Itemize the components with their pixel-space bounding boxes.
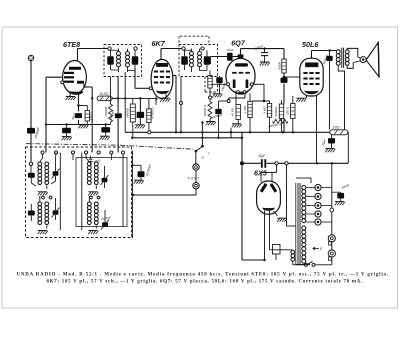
label 6K7	[152, 39, 166, 48]
label 6Q7	[231, 39, 246, 48]
ground 6K7	[160, 98, 170, 102]
label 50uF	[71, 112, 77, 120]
label 10000pF	[211, 113, 223, 120]
svg-text:4 MΩ: 4 MΩ	[262, 106, 266, 114]
label 25uF out	[320, 138, 327, 147]
capacitor 1000pF det	[216, 76, 223, 94]
svg-text:150 Ω: 150 Ω	[286, 106, 290, 115]
svg-text:20000pF: 20000pF	[99, 215, 111, 221]
power transformer heater coil	[291, 250, 295, 265]
wire grid to tube	[283, 76, 300, 78]
resistor 5K field	[330, 130, 348, 135]
tube 6Q7 plate	[235, 63, 248, 66]
tube 6Q7 diode plates	[233, 80, 249, 89]
svg-text:40 KΩ: 40 KΩ	[231, 107, 235, 116]
wire bus C (B+)	[125, 131, 329, 134]
terminal FONT 2	[193, 183, 199, 189]
tube 6TE8 cathode	[61, 81, 84, 95]
svg-text:500000: 500000	[274, 106, 278, 116]
capacitor 10000pF af	[215, 101, 222, 138]
svg-text:5 KΩ: 5 KΩ	[333, 125, 341, 129]
power transformer core	[296, 183, 300, 265]
svg-text:50000: 50000	[277, 62, 281, 70]
switch power	[293, 262, 315, 267]
IF1 secondary cap	[132, 50, 139, 68]
svg-text:500000: 500000	[126, 108, 130, 118]
tube 6Q7 cathode	[234, 91, 248, 95]
tube 6X5 envelope	[257, 181, 281, 214]
ground 40000	[335, 202, 345, 206]
capacitor band2 padding	[28, 204, 35, 221]
wire 6TE8 grid to tuner (horiz)	[46, 76, 63, 78]
caption line 1	[17, 273, 389, 278]
power transformer taps	[306, 188, 315, 223]
label 6TE8	[63, 40, 80, 49]
capacitor 1000pF antenna	[27, 128, 35, 134]
trimmer ant	[51, 153, 60, 185]
wire IF1 sec down	[124, 72, 126, 132]
wire group2 links	[60, 153, 123, 231]
IF2 primary coil	[190, 49, 194, 73]
wire heater return y260	[242, 259, 266, 261]
tube 6K7 grid rows	[154, 71, 170, 84]
socket 2	[315, 193, 321, 199]
output transformer secondary	[345, 50, 349, 66]
label FONT	[188, 176, 201, 180]
switch fuse box	[273, 245, 281, 261]
label 50000 grid	[277, 62, 281, 70]
label 25uF	[226, 48, 234, 52]
junction 6TE8 cathode node	[77, 104, 79, 106]
wire right line	[330, 163, 334, 234]
wire osc left	[84, 84, 93, 152]
wire switch to jack	[315, 257, 332, 265]
output transformer core	[342, 48, 344, 68]
svg-text:15 KΩ: 15 KΩ	[99, 92, 109, 96]
capacitor AVC 2	[101, 125, 110, 136]
svg-text:10000pF: 10000pF	[211, 113, 223, 120]
label 1000pF det	[220, 82, 228, 93]
wire 6TE8 grid vertical	[45, 77, 47, 152]
svg-text:25μF: 25μF	[226, 48, 234, 52]
svg-text:FONT: FONT	[188, 176, 201, 180]
antenna terminal	[28, 55, 33, 60]
junction circle	[209, 96, 212, 99]
capacitor 4500pF tone	[261, 49, 268, 62]
resistor 500000 pot	[273, 119, 289, 123]
tube 6K7 plate	[157, 63, 168, 66]
svg-text:47000 Ω: 47000 Ω	[151, 107, 155, 119]
wire group verticals	[0, 0, 1, 1]
wire cathode RC	[79, 106, 88, 125]
tube 50L6 grid rows	[303, 72, 319, 85]
speaker cone	[366, 42, 379, 76]
IF2 shield can (dashed)	[179, 45, 218, 77]
ground 50000	[206, 122, 216, 126]
resistor IF2 damp	[208, 71, 212, 97]
resistor 15K osc	[97, 96, 112, 101]
speaker voice coil	[353, 57, 366, 63]
wire bus interlink	[230, 132, 232, 138]
terminal tuner 6	[110, 151, 113, 154]
capacitor 25uF grid	[211, 53, 239, 64]
dash-dot gang link	[26, 144, 193, 150]
svg-text:32μF: 32μF	[258, 154, 266, 158]
resistor 50000 diode load	[208, 99, 212, 121]
tube 50L6 stems	[307, 95, 317, 163]
label switch	[202, 152, 210, 160]
wire res c	[292, 96, 294, 132]
label 40K	[231, 107, 235, 116]
coil band2 osc A	[87, 196, 91, 225]
terminal IF2 left	[182, 47, 185, 50]
wire 6K7 plate up	[161, 49, 182, 61]
capacitor 5000pF plate	[326, 51, 333, 130]
ground band2	[38, 231, 48, 235]
tube 50L6 plate	[306, 63, 319, 67]
wire avc res	[110, 77, 112, 125]
label 4700	[94, 158, 101, 163]
terminal antenna in	[29, 162, 32, 165]
label 500000 pot	[268, 122, 282, 129]
terminal tuner 3	[71, 151, 74, 154]
IF2 can right extension	[205, 77, 218, 93]
resistor 47000	[147, 98, 151, 131]
wire B- vertical x242	[241, 132, 243, 260]
capacitor 6K7 cathode bypass	[137, 98, 145, 125]
wire antenna lead down	[30, 61, 32, 162]
wire font return	[132, 189, 196, 196]
socket 1	[315, 184, 321, 190]
wire field to bus D	[347, 132, 350, 163]
label 40000	[341, 183, 350, 190]
wire res b	[281, 100, 283, 132]
capacitor 40000 line	[332, 192, 344, 201]
wire coupling right	[241, 47, 285, 49]
coil osc B	[94, 154, 98, 189]
wire 6Q7 diode out	[250, 83, 265, 101]
label 20000pF	[99, 215, 111, 221]
resistor 250ohm cathode	[85, 111, 89, 122]
trimmer band2 osc	[101, 210, 109, 230]
ground 40K	[232, 124, 242, 128]
ground det cap	[212, 94, 222, 98]
wire x132 vertical	[131, 151, 133, 239]
tube 6Q7 grid row	[232, 72, 250, 74]
svg-text:50L6: 50L6	[302, 40, 319, 49]
coil osc A	[86, 154, 91, 185]
ground 20000pF	[134, 180, 144, 184]
IF2 secondary coil	[198, 49, 202, 71]
wire 6K7 grid	[135, 68, 149, 88]
coil band2 A	[38, 196, 42, 225]
capacitor 20000pF font	[132, 165, 144, 180]
label 1000pF	[34, 125, 41, 139]
IF1 primary coil	[117, 49, 121, 73]
switch wave contacts	[195, 145, 204, 153]
wire 6K7 cath link	[124, 97, 157, 100]
ground coil ant	[38, 192, 48, 196]
tube 6TE8 plate bars	[64, 67, 84, 84]
svg-text:50μF: 50μF	[71, 112, 77, 120]
socket 3	[315, 202, 321, 208]
wire transformer return	[338, 65, 344, 129]
wire jacks	[331, 242, 333, 250]
svg-text:C: C	[208, 152, 210, 156]
coil band2 osc B	[94, 202, 98, 229]
tube 6Q7 envelope	[226, 58, 255, 93]
wire 6K7 screen	[173, 76, 176, 132]
capacitor 25uF out	[328, 135, 335, 149]
ground 6X5	[277, 218, 287, 222]
jack 1	[328, 235, 335, 245]
svg-text:20.000pF: 20.000pF	[145, 163, 152, 177]
label 50L6	[302, 40, 319, 49]
tube 6Q7 stems	[229, 93, 245, 105]
label 1M	[243, 105, 247, 113]
label 100000	[104, 107, 108, 117]
label 4M	[262, 106, 266, 114]
tube 50L6 cathode	[305, 91, 319, 95]
svg-text:4700: 4700	[94, 158, 101, 163]
wire 6X5 cath gnd	[274, 211, 278, 216]
power transformer winding upper	[302, 186, 306, 223]
capacitor 50uF cathode	[75, 113, 82, 118]
terminal tuner 2	[54, 151, 57, 154]
label 5000pF	[322, 54, 329, 65]
wire sockets to line	[321, 188, 332, 223]
terminal tuner 5	[97, 151, 100, 154]
svg-text:100000: 100000	[104, 107, 108, 117]
svg-text:6TE8: 6TE8	[63, 40, 80, 49]
ground band2 osc	[88, 231, 98, 235]
capacitor 4700 top	[89, 156, 93, 166]
svg-text:E: E	[320, 247, 323, 251]
wire font top	[195, 151, 197, 164]
ground AVC 2	[100, 136, 110, 140]
svg-text:UNDA RADIO - Mod. R 52/1 - Med: UNDA RADIO - Mod. R 52/1 - Medie e corte…	[17, 273, 389, 278]
caption line 2	[47, 280, 364, 285]
tuner dashed box	[26, 147, 132, 238]
output transformer primary	[336, 50, 340, 66]
terminal FONT 1	[193, 164, 199, 170]
tube 6X5 cathode	[262, 208, 275, 211]
coil band2 B	[45, 202, 49, 229]
svg-text:6K7: 6K7	[152, 39, 166, 48]
ground 6TE8 cathode	[66, 97, 76, 101]
svg-text:6K7: 105 V pl., 57 V sch., —1: 6K7: 105 V pl., 57 V sch., —1 V griglia.…	[47, 280, 364, 285]
wire IF2 primary feed	[180, 77, 183, 134]
ground 6K7 bypass	[135, 125, 145, 129]
wire plate feed	[285, 162, 296, 226]
ground 50L6 cathode	[296, 98, 306, 102]
wire 6Q7 diode left	[212, 83, 231, 86]
tuner inner solid box	[76, 158, 127, 227]
resistor 500000 b	[274, 104, 284, 119]
label 15K	[99, 92, 109, 96]
wire AVC line A	[45, 123, 111, 125]
wire osc right	[112, 77, 125, 153]
svg-text:1 MΩ: 1 MΩ	[243, 105, 247, 113]
socket 4	[315, 211, 321, 217]
svg-text:500000 Ω: 500000 Ω	[268, 122, 282, 129]
IF1 shield can (dashed)	[104, 45, 142, 77]
label 5K	[333, 125, 341, 129]
terminal IF1 right	[134, 47, 137, 50]
resistor 150 c	[286, 104, 295, 119]
tube 6Q7 top cap	[238, 54, 244, 58]
capacitor ant padding	[28, 166, 36, 187]
capacitor 32uF	[261, 159, 266, 168]
IF1 internal wires	[111, 50, 136, 70]
label 4500pF	[253, 44, 264, 51]
wire font link	[195, 170, 197, 182]
tube 6TE8 stem wires	[70, 93, 79, 106]
label 32uF	[258, 154, 266, 158]
terminal tuner 7	[121, 151, 124, 154]
coil ant B	[45, 162, 49, 189]
wire det junction	[219, 100, 231, 103]
wire secondary to speaker	[347, 48, 358, 68]
trimmer osc	[101, 166, 109, 188]
svg-text:1000pF: 1000pF	[220, 82, 228, 93]
tube 6X5 plate risers	[261, 162, 278, 182]
label 50000	[203, 104, 207, 116]
capacitor grid 50L6	[281, 78, 288, 83]
capacitor AVC 1	[62, 125, 71, 137]
terminal IF1 left	[108, 47, 111, 50]
svg-text:M: M	[202, 156, 205, 160]
tube 50L6 envelope	[300, 58, 323, 96]
IF2 primary cap	[181, 50, 188, 70]
junction circle 6K7 left	[149, 87, 152, 90]
resistor 500000 grid 6K7	[130, 104, 135, 122]
wire 50L6 grid chain	[283, 49, 285, 133]
IF2 internal wires	[185, 50, 208, 70]
wire bus D (rectifier output)	[240, 162, 348, 165]
label 1000pF osc	[108, 110, 115, 121]
IF2 can top dashes	[179, 36, 209, 44]
wire group1 links	[72, 154, 74, 160]
resistor 100000 AVC	[109, 104, 113, 122]
ground 25uF	[325, 149, 335, 153]
terminal tuner 4	[84, 151, 87, 154]
label 6X5	[254, 169, 268, 178]
ground coil osc	[88, 192, 98, 196]
tube 6TE8 envelope	[63, 60, 87, 93]
power transformer top lead	[296, 178, 311, 183]
IF1 secondary coil	[126, 49, 130, 72]
resistor 50000 grid	[282, 59, 286, 73]
ground tone cap	[260, 62, 270, 66]
power transformer winding lower	[302, 226, 306, 263]
resistor 4M	[252, 100, 272, 133]
label E arrow	[313, 247, 323, 251]
terminal IF2 right	[201, 47, 204, 50]
label 20000pF	[145, 163, 152, 177]
wire bus B	[131, 137, 242, 139]
tube 6K7 stems	[156, 94, 166, 106]
resistor 1M	[248, 94, 252, 133]
svg-text:25μF: 25μF	[320, 138, 327, 147]
svg-text:50000 Ω: 50000 Ω	[203, 104, 207, 116]
wire resz	[132, 98, 134, 138]
svg-text:6Q7: 6Q7	[231, 39, 246, 48]
IF2 secondary cap	[204, 50, 211, 70]
jack 2	[328, 250, 335, 260]
tube 6X5 anodes	[260, 183, 277, 193]
ground cathode RC	[78, 125, 88, 129]
label 250ohm	[89, 112, 93, 122]
wire switch feed	[201, 121, 203, 145]
svg-text:4500pF: 4500pF	[253, 44, 264, 51]
tube 6K7 cathode	[156, 91, 169, 95]
wire 6Q7 plate top	[240, 49, 242, 59]
ground AVC 1	[62, 137, 72, 141]
wire ant into box	[30, 155, 32, 162]
label 500000	[126, 108, 130, 118]
wire 50L6 plate	[312, 49, 337, 58]
label 47000	[151, 107, 155, 119]
wire 6TE8 plate to IF1	[78, 49, 108, 61]
wire mid circles	[42, 196, 100, 199]
resistor 40K 6Q7 cath	[231, 105, 240, 133]
coil ant A	[38, 153, 43, 185]
trimmer band2	[52, 198, 60, 220]
socket 5	[315, 219, 321, 225]
svg-text:1000μμF: 1000μμF	[34, 125, 41, 139]
tube 6X5 stems	[265, 211, 292, 261]
terminal tuner 1	[41, 151, 44, 154]
power transformer bottom	[296, 264, 310, 266]
svg-text:40000: 40000	[341, 183, 350, 190]
capacitor 1000pF osc	[115, 113, 122, 118]
tube 6K7 envelope	[151, 59, 173, 98]
IF1 primary cap	[107, 50, 114, 70]
